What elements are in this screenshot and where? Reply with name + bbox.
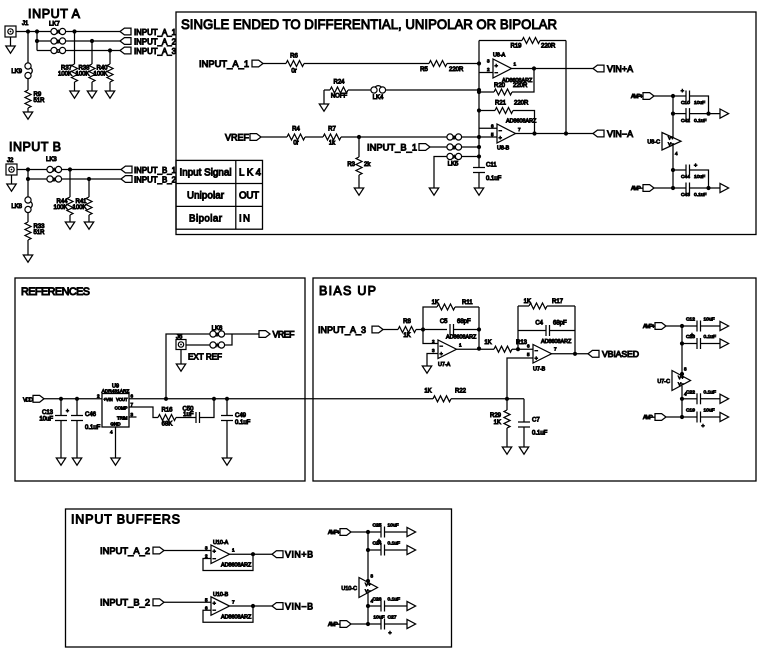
jumper LK7 row B [51,38,57,44]
svg-text:2k: 2k [364,162,371,168]
port VIN+A [593,65,604,72]
wire U10-B output [230,605,273,607]
svg-text:AD8608ARZ: AD8608ARZ [221,563,252,569]
ground (under C46) [72,458,81,465]
svg-text:BIAS UP: BIAS UP [319,284,376,298]
wire U8-A output to VIN+A [512,68,594,70]
capacitor C13 10uF [60,399,62,416]
resistor R21 220R [495,108,513,114]
svg-text:0.1uF: 0.1uF [694,192,707,198]
junction U7-A output node [477,347,481,351]
svg-text:AMP−: AMP− [328,622,340,628]
svg-text:REFERENCES: REFERENCES [21,286,90,298]
wire decoupling bus upper (buffers) [367,532,369,583]
wire R21 row [479,110,495,112]
junction C49 tap [225,397,229,401]
capacitor C10 10uF [673,95,686,97]
wire rail up to LK6 [166,334,210,399]
capacitor C19 10uF [682,416,697,418]
box: REFERENCES [15,278,305,481]
svg-text:C42: C42 [681,118,690,124]
connector J1 [5,26,16,37]
svg-text:AMP−: AMP− [643,415,655,421]
junction bus row B [477,145,481,149]
svg-text:C22: C22 [686,389,695,395]
port VREF (references out) [259,331,270,338]
svg-text:B: B [453,145,456,150]
svg-text:8: 8 [684,367,687,372]
power out arrow C26 [407,601,416,610]
wire R19 to right vertical [540,40,566,42]
svg-text:4: 4 [675,151,678,156]
capacitor C26 0.1uF [368,605,381,607]
svg-text:220R: 220R [541,44,556,50]
wire U9 VOUT rail to BIAS UP [129,398,433,400]
svg-text:GND: GND [110,422,121,427]
svg-text:+VIN: +VIN [104,397,113,402]
jumper LK7 row A [51,28,57,34]
resistor R16 68K [158,415,176,421]
wire TRIM stub [129,416,137,418]
svg-text:Input Signal: Input Signal [180,168,232,179]
wire C4 to right vertical [550,330,576,332]
power out arrow C22 [720,394,729,403]
wire R20 row [479,91,494,93]
wire COMP to R16 [129,407,158,418]
svg-text:U7-C: U7-C [657,379,670,385]
svg-text:100K: 100K [53,205,67,211]
capacitor C25 10uF [368,531,381,533]
junction (LK8 branch) [26,167,30,171]
svg-text:LK9: LK9 [11,69,22,75]
wire R13 to U7-B minus [512,348,533,350]
wire port to U10-B plus [164,601,211,603]
wire into LK3 row B [28,178,47,180]
resistor R6 0R [286,61,304,67]
wire LK4 to bus [385,89,479,91]
wire R33 to ground [27,240,29,255]
wire R9 to ground [27,108,29,112]
svg-text:1: 1 [459,343,462,348]
ground (under C49) [222,458,231,465]
svg-text:LK3: LK3 [46,157,57,163]
svg-text:C5: C5 [440,319,448,325]
svg-text:INPUT_A_3: INPUT_A_3 [134,47,177,56]
svg-text:C13: C13 [42,410,54,416]
svg-text:C27: C27 [388,615,397,621]
svg-text:C7: C7 [532,418,540,424]
port VBIASED [588,350,599,357]
resistor R5 220R [429,61,447,67]
junction U10-A output node [251,552,255,556]
capacitor C49 0.1uF [226,399,228,416]
svg-text:10uF: 10uF [388,523,399,529]
wire R4 to R7 [305,136,323,138]
resistor R20 220R [494,89,512,95]
svg-text:1: 1 [514,62,517,67]
wire into LK7 row C [37,50,51,52]
wire U7-B fb vertical [517,306,519,349]
svg-text:J2: J2 [7,158,14,164]
capacitor C50 1uF [195,412,197,423]
svg-text:2: 2 [487,67,490,72]
junction C26 bus [366,604,370,608]
svg-text:+: + [440,351,443,357]
svg-text:R11: R11 [462,300,473,306]
svg-text:V−: V− [678,381,684,386]
svg-text:U8-A: U8-A [493,53,506,59]
svg-text:INPUT_A_2: INPUT_A_2 [134,37,176,46]
svg-text:7: 7 [131,402,134,407]
power out arrow C19 [720,412,729,421]
svg-text:+: + [694,163,697,169]
svg-text:C24: C24 [373,541,382,547]
capacitor C12 10uF [682,325,697,327]
junction decoupling out lower [706,186,710,190]
svg-text:1: 1 [232,548,235,553]
wire R16 to C50 [176,417,196,419]
port VIN+B [272,551,283,558]
svg-text:B: B [53,177,56,182]
wire C19 to out arrow [701,416,721,418]
svg-text:−: − [499,128,502,134]
ground (under R40) [105,91,114,98]
resistor R22 1K [433,396,451,402]
junction AMP+ bus (bias) [680,324,684,328]
svg-text:B: B [453,135,456,140]
capacitor C44 10uF [673,169,686,171]
ground (under J6) [176,364,185,371]
junction AMP+ bus (buffers) [366,530,370,534]
wire R20 to output vertical [512,69,534,93]
svg-text:−: − [213,608,216,614]
junction U7-A input node [421,327,425,331]
svg-text:B: B [216,332,219,337]
svg-text:NOFF: NOFF [331,94,348,100]
junction U10-B output node [251,604,255,608]
wire VREF port to R4 [261,136,287,138]
resistor R29 1K [506,399,508,410]
svg-text:R8: R8 [403,319,411,325]
junction U8-B output node [532,131,536,135]
wire VDD to U9 +VIN [44,398,102,400]
ground (under U9) [111,458,120,465]
svg-text:Unipolar: Unipolar [187,191,225,202]
svg-text:0.1uF: 0.1uF [486,176,502,182]
svg-text:R16: R16 [161,408,173,414]
svg-text:C23: C23 [686,334,695,340]
svg-text:COMP: COMP [115,406,128,411]
svg-text:−: − [535,349,538,355]
ground (LK5 row C) [429,188,438,195]
svg-text:VOUT: VOUT [116,397,128,402]
wire fb vertical to output [478,307,480,349]
capacitor C27 10uF [368,623,381,625]
wire decoupling bus lower (buffers) [367,593,369,624]
wire C11 to ground [478,173,480,189]
table Input Signal / LK4 [176,160,263,229]
wire U10-B feedback loop [203,606,253,622]
ground (under C7) [519,447,528,454]
port INPUT_B_2 [121,176,132,183]
junction U7-B fb node [516,347,520,351]
svg-text:AD8608ARZ: AD8608ARZ [541,339,572,345]
wire C25 to out arrow [385,531,408,533]
svg-text:INPUT_B_1: INPUT_B_1 [367,142,417,152]
svg-text:R5: R5 [420,67,428,73]
svg-text:+: + [213,549,216,555]
svg-text:R4: R4 [292,127,300,133]
svg-text:6: 6 [205,605,208,610]
svg-text:1K: 1K [494,420,501,426]
wire LK5 row A to bus [461,136,479,138]
wire U7-B plus from rail [507,358,533,399]
junction bus row C [477,154,481,158]
svg-text:U7-A: U7-A [438,362,451,368]
svg-text:10uF: 10uF [39,417,53,423]
svg-text:INPUT_A_1: INPUT_A_1 [134,28,176,37]
capacitor C24 0.1uF [368,549,381,551]
ground (below J1) [10,37,12,46]
junction C19 bus [680,415,684,419]
junction C22 bus [680,397,684,401]
ground (U7-A plus) [422,366,431,373]
wire LK8 to R33 [27,212,29,222]
wire R29 to ground [506,428,508,447]
connector J6 EXT REF [176,340,186,350]
wire R22 to C7 [451,398,524,400]
wire LK5 row C to bus [461,156,479,158]
wire fb right vertical [574,306,576,354]
wire node down to U7-A minus [423,330,438,344]
wire decoupling bus upper [672,96,674,137]
wire C12 to out arrow [701,325,721,327]
svg-text:VIN−B: VIN−B [285,601,313,611]
jumper LK3 row B [47,176,53,182]
svg-text:B: B [57,39,60,44]
jumper LK6 row A [210,342,216,348]
svg-text:+: + [681,89,684,95]
wire node up to R11 [423,307,437,330]
wire C10 to arrow node [690,96,709,114]
svg-text:TRIM: TRIM [117,416,128,421]
port VIN-B [272,603,283,610]
svg-text:−: − [213,556,216,562]
power out arrow C25 [407,527,416,536]
svg-text:68pF: 68pF [457,319,471,325]
wire C22 to out arrow [701,398,721,400]
junction R3 tap [357,135,361,139]
svg-text:10uF: 10uF [694,174,705,180]
wire J6 to ground [180,350,182,365]
svg-text:51R: 51R [34,98,46,104]
svg-text:51R: 51R [34,230,46,236]
junction C44 bus [671,168,675,172]
svg-text:C12: C12 [686,317,695,323]
ground (under R9) [23,112,32,119]
svg-text:R20: R20 [494,83,506,89]
svg-text:AMP−: AMP− [631,186,643,192]
junction U8-A output node [532,66,536,70]
power out arrow C24 [407,545,416,554]
svg-text:0.1uF: 0.1uF [235,420,251,426]
wire J2 to LK3 row A [17,169,47,171]
svg-text:LK7: LK7 [49,22,60,28]
svg-text:AD8608ARZ: AD8608ARZ [221,614,252,620]
svg-text:VREF: VREF [273,329,296,339]
resistor R3 2k [358,137,360,157]
resistor R8 1K [398,327,416,333]
svg-text:0.1uF: 0.1uF [388,541,401,547]
svg-text:INPUT B: INPUT B [9,140,61,154]
junction LK4/R20 node [477,88,481,92]
wire C23 to out arrow [701,343,721,345]
wire C46 to ground [76,421,78,459]
wire U8-B plus stub [479,136,497,138]
wire branch down to row B [27,170,29,180]
wire R21 to VIN-A node [513,111,535,134]
svg-text:8: 8 [371,574,374,579]
junction AMP+ bus [671,94,675,98]
jumper LK8 [27,179,29,197]
ground (R24 left) [323,90,325,104]
wire LK5 row C to ground [434,157,447,189]
junction C27 bus [366,622,370,626]
svg-text:100K: 100K [93,72,107,78]
svg-text:C46: C46 [85,412,97,418]
junction bus at U7-C [680,372,684,376]
svg-text:0r: 0r [293,141,298,147]
box: BIAS UP [313,278,756,481]
svg-text:0.1uF: 0.1uF [532,431,548,437]
resistor R7 1k [323,134,341,140]
wire AMP+ to bus (buffers) [351,531,368,533]
wire feedback top row R19 [479,40,522,42]
ground (under R37) [70,91,79,98]
wire decoupling bus lower [672,146,674,189]
svg-text:6: 6 [491,123,494,128]
svg-text:10uF: 10uF [704,408,715,414]
resistor R41 100K [88,179,90,197]
svg-text:R29: R29 [490,413,502,419]
svg-text:1K: 1K [403,333,410,339]
jumper LK5 row B [447,144,453,150]
svg-text:−: − [440,344,443,350]
junction R44 tap [68,167,72,171]
svg-text:INPUT_B_2: INPUT_B_2 [100,598,150,608]
svg-text:Bipolar: Bipolar [189,213,223,224]
svg-text:SINGLE ENDED TO DIFFERENTIAL,: SINGLE ENDED TO DIFFERENTIAL, UNIPOLAR O… [181,16,557,32]
svg-text:U9: U9 [112,384,119,390]
junction R37 tap [72,29,76,33]
svg-text:6: 6 [131,394,134,399]
svg-text:0r: 0r [291,69,296,75]
port INPUT_A_1 [120,28,131,35]
svg-text:INPUT BUFFERS: INPUT BUFFERS [71,513,180,527]
svg-text:C10: C10 [681,100,690,106]
junction C24 bus [366,548,370,552]
wire R3 to ground [358,175,360,188]
svg-text:10uF: 10uF [704,317,715,323]
wire C24 to out arrow [385,549,408,551]
wire LK9 to R9 [27,78,29,90]
resistor R13 1K [494,346,512,352]
svg-text:220R: 220R [449,67,464,73]
svg-text:0.1uF: 0.1uF [85,425,101,431]
wire U7-B output to VBIASED [552,353,589,355]
svg-text:R19: R19 [510,44,522,50]
wire R8 to node [416,329,447,331]
port INPUT_A_3 [120,47,131,54]
svg-text:VIN+A: VIN+A [607,64,633,74]
wire AMP- to bus (buffers) [351,623,368,625]
wire LK7 row B to port INPUT_A_2 [65,40,120,42]
ground (under C11) [474,188,483,195]
resistor R4 0r [287,134,305,140]
svg-text:AD8608ARZ: AD8608ARZ [506,119,537,125]
capacitor C43 0.1uF [673,187,686,189]
wire R24 to LK4 [348,89,371,91]
svg-text:R6: R6 [290,54,298,60]
wire R17 to right vertical [547,305,575,307]
svg-text:1K: 1K [524,299,531,305]
svg-text:+: + [495,63,498,69]
svg-text:1K: 1K [424,389,431,395]
wire R5 to bus [447,63,479,65]
svg-text:1K: 1K [432,300,439,306]
junction U8-A + input node [477,61,481,65]
wire decoupling bus upper (bias) [681,326,683,376]
svg-text:220R: 220R [513,83,528,89]
svg-text:C4: C4 [535,321,543,327]
svg-text:100K: 100K [72,205,86,211]
capacitor C23 0.1uF [682,343,697,345]
wire AMP- to bus [654,187,673,189]
svg-text:INPUT_B_2: INPUT_B_2 [134,175,176,184]
svg-text:V+: V+ [668,136,674,141]
svg-text:AMP+: AMP+ [643,324,655,330]
wire right vertical to VIN-A node [565,41,567,134]
svg-text:LK4: LK4 [239,168,262,179]
junction C13 tap [59,397,63,401]
junction U7-B output node [573,352,577,356]
wire C44 to arrow node [690,170,709,188]
svg-text:3: 3 [131,412,134,417]
ground (under R41) [84,222,93,229]
wire port to R6 [263,63,286,65]
jumper LK7 row C [51,47,57,53]
junction (row B/C branch) [35,29,39,33]
svg-text:U8-B: U8-B [497,146,510,152]
junction bias node [505,397,509,401]
svg-text:1k: 1k [329,141,336,147]
wire C26 to out arrow [385,605,408,607]
ground (under R29) [502,447,511,454]
svg-text:5: 5 [527,352,530,357]
wire port to R8 [383,329,398,331]
svg-text:INPUT_A_2: INPUT_A_2 [100,546,150,556]
svg-text:INPUT_B_1: INPUT_B_1 [134,166,176,175]
wire C42 to out arrow [690,113,721,115]
wire J6 to LK6 row A [186,344,210,346]
box: INPUT BUFFERS [66,509,452,647]
svg-text:C43: C43 [681,192,690,198]
svg-text:IN: IN [239,213,250,224]
svg-text:0.1uF: 0.1uF [694,118,707,124]
power out arrow C12 [720,321,729,330]
resistor R24 NOFF [330,87,348,93]
wire U7-A output to R13 [457,348,495,350]
